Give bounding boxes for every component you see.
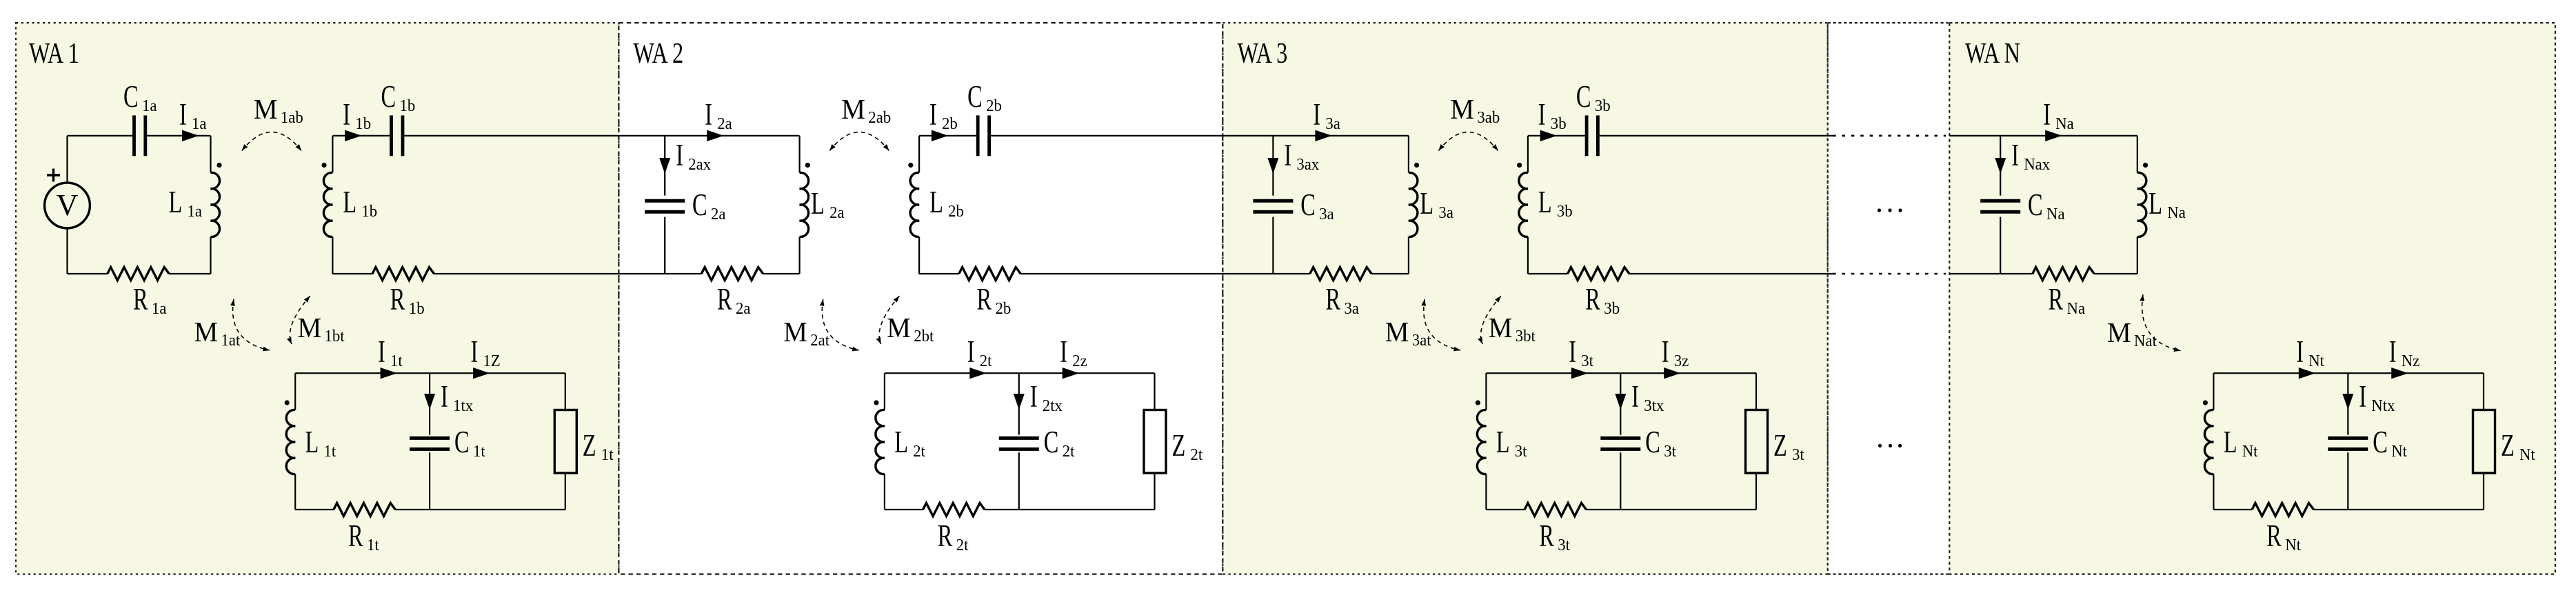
svg-text:I: I xyxy=(1284,139,1291,172)
svg-text:I: I xyxy=(676,139,683,172)
arrow I2tx xyxy=(1014,394,1025,410)
label I3ax xyxy=(1284,139,1319,174)
wire loop3b bottom xyxy=(1528,273,1568,274)
svg-text:I: I xyxy=(1313,98,1320,132)
wire t-loop 3 right xyxy=(1755,373,1757,410)
arrow INtx xyxy=(2342,394,2353,410)
svg-text:L: L xyxy=(811,187,825,221)
svg-text:I: I xyxy=(441,380,448,414)
svg-text:WA N: WA N xyxy=(1965,38,2020,70)
svg-text:R: R xyxy=(2266,519,2282,553)
svg-text:L: L xyxy=(2149,187,2162,221)
WA N block background xyxy=(1949,23,2555,574)
svg-text:I: I xyxy=(929,98,937,132)
impedance ZNt xyxy=(2473,410,2495,474)
label M2at xyxy=(783,316,829,350)
resistor R1t xyxy=(334,503,395,516)
svg-text:Ntx: Ntx xyxy=(2371,396,2395,415)
label LNt xyxy=(2224,425,2258,461)
impedance Z3t xyxy=(1746,410,1768,474)
label INt xyxy=(2296,335,2324,370)
svg-text:I: I xyxy=(2389,335,2397,369)
label CNt xyxy=(2373,425,2407,461)
svg-text:1ab: 1ab xyxy=(281,108,303,127)
dashed border box WA N xyxy=(1949,23,2555,574)
capacitor C1t xyxy=(410,436,450,440)
svg-text:1tx: 1tx xyxy=(453,396,473,415)
svg-text:2b: 2b xyxy=(986,97,1002,115)
svg-text:R: R xyxy=(348,519,363,553)
resistor R3b xyxy=(1568,268,1629,281)
wire t-loop 3 left xyxy=(1485,373,1487,410)
svg-text:3t: 3t xyxy=(1792,445,1804,464)
svg-text:1b: 1b xyxy=(400,97,416,115)
svg-text:2tx: 2tx xyxy=(1043,396,1063,415)
label RNa xyxy=(2049,283,2086,318)
dashed border box WA 2 xyxy=(618,23,1222,574)
label I3z xyxy=(1662,335,1689,370)
label I2ax xyxy=(676,139,711,174)
svg-text:R: R xyxy=(390,283,405,316)
wire top lead into loopNa xyxy=(1949,135,2137,137)
dashed border gap column bottom xyxy=(1828,573,1950,574)
svg-text:I: I xyxy=(1060,335,1067,369)
svg-text:C: C xyxy=(2373,425,2388,459)
svg-text:C: C xyxy=(1645,425,1660,459)
inductor LNa xyxy=(2137,172,2146,237)
label R1a xyxy=(133,283,167,318)
svg-text:L: L xyxy=(1538,185,1552,219)
arrow I2t xyxy=(969,368,987,379)
svg-text:M: M xyxy=(194,316,219,348)
label I1b xyxy=(343,98,371,133)
inductor L3t xyxy=(1477,410,1486,474)
wire t-loop 2 left xyxy=(884,373,885,410)
arrow I2a xyxy=(707,130,724,141)
svg-text:I: I xyxy=(705,98,712,132)
wire loop1b left xyxy=(332,136,333,173)
wire t-loop 2 right xyxy=(1154,373,1155,410)
wire t-loop N right xyxy=(2483,373,2484,410)
svg-text:2bt: 2bt xyxy=(914,327,934,345)
arrow I3a xyxy=(1315,130,1332,141)
label I3a xyxy=(1313,98,1340,133)
svg-text:3a: 3a xyxy=(1438,203,1453,222)
wire t-loop N bottom xyxy=(2213,509,2252,510)
svg-text:3t: 3t xyxy=(1558,536,1570,554)
svg-text:3a: 3a xyxy=(1345,299,1360,318)
coupling arc M3at xyxy=(1424,299,1460,350)
svg-text:R: R xyxy=(1539,519,1554,553)
label MNat xyxy=(2107,316,2157,350)
svg-text:R: R xyxy=(2049,283,2064,316)
svg-text:I: I xyxy=(378,335,385,369)
svg-text:M: M xyxy=(254,93,278,125)
svg-text:Na: Na xyxy=(2167,203,2186,222)
svg-text:3z: 3z xyxy=(1674,352,1689,370)
svg-text:R: R xyxy=(133,283,148,316)
inductor L2a xyxy=(800,172,809,237)
svg-text:Z: Z xyxy=(2501,429,2515,463)
label C2b xyxy=(967,80,1002,115)
arrow INz xyxy=(2391,368,2408,379)
svg-text:2t: 2t xyxy=(1191,445,1203,464)
resistor R3t xyxy=(1525,503,1586,516)
label R1b xyxy=(390,283,425,318)
label L1a xyxy=(169,185,203,221)
label RNt xyxy=(2266,519,2301,554)
label R3t xyxy=(1539,519,1570,554)
wire t-loop N left xyxy=(2213,373,2214,410)
label C1t xyxy=(454,425,485,461)
label I2a xyxy=(705,98,732,133)
svg-text:Na: Na xyxy=(2055,114,2074,133)
label M3bt xyxy=(1489,312,1536,345)
dashed border box WA 3 xyxy=(1222,23,1827,574)
svg-text:2a: 2a xyxy=(829,203,845,222)
svg-text:I: I xyxy=(2011,139,2019,172)
svg-text:Nt: Nt xyxy=(2242,442,2258,461)
label C3a xyxy=(1300,188,1334,223)
label R3a xyxy=(1326,283,1360,318)
label Z1t xyxy=(583,429,614,464)
phase dot L1t xyxy=(285,400,290,405)
svg-text:1a: 1a xyxy=(142,97,157,115)
svg-text:C: C xyxy=(381,80,396,114)
svg-text:Z: Z xyxy=(1172,429,1186,463)
wire t-loop 1 middle branch xyxy=(429,373,430,434)
wire t-loop 3 top xyxy=(1486,372,1756,374)
svg-text:C: C xyxy=(123,80,139,114)
svg-text:2at: 2at xyxy=(810,331,829,350)
WA 1 block background xyxy=(16,23,618,574)
coupling arc M1ab xyxy=(242,132,301,151)
capacitor CNt xyxy=(2328,436,2368,440)
svg-text:3bt: 3bt xyxy=(1516,327,1536,345)
svg-text:1a: 1a xyxy=(188,202,203,221)
svg-text:1b: 1b xyxy=(355,114,371,133)
svg-text:1b: 1b xyxy=(409,299,425,318)
svg-text:L: L xyxy=(1420,187,1433,221)
svg-text:3tx: 3tx xyxy=(1644,396,1664,415)
label R2a xyxy=(717,283,751,318)
svg-text:3b: 3b xyxy=(1604,299,1620,318)
label R3b xyxy=(1585,283,1620,318)
svg-text:2t: 2t xyxy=(1063,442,1075,461)
phase dot L2t xyxy=(874,400,878,405)
coupling arc M3bt xyxy=(1481,296,1501,344)
label C3t xyxy=(1645,425,1676,461)
svg-text:M: M xyxy=(841,93,865,125)
wire loop3a right xyxy=(1408,136,1409,173)
label I3b xyxy=(1538,98,1567,133)
svg-text:Nt: Nt xyxy=(2308,352,2324,370)
label Z2t xyxy=(1172,429,1203,464)
label L1t xyxy=(305,425,336,461)
svg-text:2t: 2t xyxy=(913,442,925,461)
svg-text:C: C xyxy=(692,188,707,222)
wire loop1a right xyxy=(210,136,211,173)
svg-text:1t: 1t xyxy=(324,442,336,461)
arrow I3b xyxy=(1540,130,1558,141)
svg-text:2ax: 2ax xyxy=(688,155,711,174)
label I2b xyxy=(929,98,958,133)
svg-text:I: I xyxy=(2043,98,2051,132)
svg-text:R: R xyxy=(977,283,992,316)
svg-text:3ax: 3ax xyxy=(1296,155,1319,174)
wire t-loop 1 bottom xyxy=(295,509,334,510)
arrow I1b xyxy=(345,130,362,141)
coupling arc M3ab xyxy=(1438,132,1498,151)
inductor L1t xyxy=(286,410,295,474)
svg-text:2z: 2z xyxy=(1072,352,1087,370)
dashed border gap column left xyxy=(1827,23,1829,574)
coupling arc MNat xyxy=(2142,294,2181,351)
resistor R2t xyxy=(923,503,985,516)
capacitor C2t xyxy=(999,436,1039,440)
phase dot L3b xyxy=(1517,163,1522,168)
svg-text:I: I xyxy=(967,335,975,369)
svg-text:Z: Z xyxy=(1773,429,1787,463)
dotted wire top between WA3 and WA N xyxy=(1833,135,1946,137)
wire t-loop 2 middle branch xyxy=(1018,373,1020,434)
phase dot L2b xyxy=(908,163,913,168)
resistor RNt xyxy=(2252,503,2313,516)
arrow I1t xyxy=(381,368,398,379)
phase dot LNa xyxy=(2143,163,2148,168)
wire loop3b top xyxy=(1528,135,1587,137)
svg-text:Nz: Nz xyxy=(2402,352,2420,370)
wire loop1a bottom xyxy=(68,273,108,274)
label I2t xyxy=(967,335,992,370)
phase dot L1b xyxy=(322,163,327,168)
label R2b xyxy=(977,283,1012,318)
label C1b xyxy=(381,80,416,115)
label L2t xyxy=(894,425,925,461)
inductor L3b xyxy=(1519,172,1528,237)
svg-text:3a: 3a xyxy=(1319,205,1334,223)
coupling arc M2ab xyxy=(829,132,889,151)
resistor R3a xyxy=(1310,268,1371,281)
svg-text:I: I xyxy=(1538,98,1546,132)
wire t-loop 2 top xyxy=(885,372,1155,374)
wire loop1a left xyxy=(66,136,68,183)
svg-text:M: M xyxy=(1450,93,1474,125)
wire loop2a right xyxy=(798,136,800,173)
svg-text:Nt: Nt xyxy=(2519,445,2535,464)
svg-text:Nt: Nt xyxy=(2391,442,2407,461)
svg-text:1a: 1a xyxy=(192,114,207,133)
phase dot LNt xyxy=(2203,400,2208,405)
wire t-loop 1 right xyxy=(565,373,566,410)
capacitor C1b xyxy=(390,115,393,156)
arrow I3tx xyxy=(1615,394,1626,410)
svg-text:3a: 3a xyxy=(1325,114,1340,133)
arrow I2z xyxy=(1063,368,1080,379)
svg-text:C: C xyxy=(2028,188,2043,222)
wire t-loop 1 left xyxy=(294,373,296,410)
svg-text:WA 1: WA 1 xyxy=(29,38,79,70)
wire loop3b left xyxy=(1527,136,1529,173)
wire loop1a top xyxy=(68,135,134,137)
dashed border gap column top xyxy=(1828,22,1950,23)
svg-text:Na: Na xyxy=(2067,299,2086,318)
arrow I1a xyxy=(182,130,199,141)
arrow INax xyxy=(1995,158,2006,174)
phase dot L1a xyxy=(217,163,221,168)
svg-text:C: C xyxy=(454,425,470,459)
svg-text:R: R xyxy=(1326,283,1341,316)
resistor R1b xyxy=(372,268,434,281)
label M3ab xyxy=(1450,93,1500,127)
svg-text:3b: 3b xyxy=(1551,114,1567,133)
svg-text:R: R xyxy=(717,283,732,316)
svg-text:L: L xyxy=(343,185,356,219)
arrow I1tx xyxy=(424,394,435,410)
phase dot L2a xyxy=(805,163,810,168)
inductor L2t xyxy=(876,410,885,474)
svg-text:2t: 2t xyxy=(956,536,969,554)
svg-text:Na: Na xyxy=(2046,205,2065,223)
wire loop3a bottom xyxy=(1273,273,1309,274)
plus sign of source xyxy=(47,174,60,176)
resistor R2b xyxy=(959,268,1020,281)
svg-text:3t: 3t xyxy=(1664,442,1676,461)
svg-text:I: I xyxy=(471,335,479,369)
ellipsis dots upper xyxy=(1878,208,1881,212)
svg-text:I: I xyxy=(2296,335,2304,369)
svg-text:I: I xyxy=(1030,380,1038,414)
label CNa xyxy=(2028,188,2065,223)
svg-text:V: V xyxy=(57,188,79,222)
label M2bt xyxy=(887,312,934,345)
label Z3t xyxy=(1773,429,1804,464)
svg-text:3at: 3at xyxy=(1412,331,1431,350)
svg-text:M: M xyxy=(887,312,911,343)
label M2ab xyxy=(841,93,891,127)
label L2a xyxy=(811,187,845,222)
label ZNt xyxy=(2501,429,2535,464)
label INax xyxy=(2011,139,2050,174)
svg-text:3ab: 3ab xyxy=(1477,108,1500,127)
resistor RNa xyxy=(2033,268,2094,281)
label M1ab xyxy=(254,93,303,127)
label I3tx xyxy=(1631,380,1664,415)
arrow I3t xyxy=(1571,368,1589,379)
svg-text:I: I xyxy=(343,98,350,132)
label I1a xyxy=(179,98,207,133)
svg-text:1at: 1at xyxy=(221,331,241,350)
label INz xyxy=(2389,335,2420,370)
wire t-loop N middle branch xyxy=(2347,373,2348,434)
svg-text:M: M xyxy=(1489,312,1513,343)
svg-text:2b: 2b xyxy=(942,114,958,133)
capacitor C2a xyxy=(645,199,685,203)
svg-text:M: M xyxy=(1385,316,1409,348)
label L3b xyxy=(1538,185,1573,221)
svg-text:I: I xyxy=(1631,380,1639,414)
svg-text:2b: 2b xyxy=(996,299,1012,318)
svg-text:I: I xyxy=(1662,335,1669,369)
arrow INa xyxy=(2045,130,2062,141)
wire loop1b top xyxy=(332,135,391,137)
label C1a xyxy=(123,80,157,115)
label L3a xyxy=(1420,187,1453,222)
coupling arc M2at xyxy=(822,299,858,350)
label INa xyxy=(2043,98,2074,133)
coupling arc M1at xyxy=(233,299,270,350)
capacitor C1a xyxy=(132,115,136,156)
label I3t xyxy=(1569,335,1593,370)
voltage source V xyxy=(45,183,90,228)
svg-text:3b: 3b xyxy=(1595,97,1611,115)
label R2t xyxy=(938,519,969,554)
label L2b xyxy=(929,185,964,221)
svg-text:1a: 1a xyxy=(152,299,167,318)
svg-text:C: C xyxy=(1576,80,1591,114)
label LNa xyxy=(2149,187,2186,222)
resistor R1a xyxy=(108,268,169,281)
svg-text:R: R xyxy=(938,519,953,553)
svg-text:L: L xyxy=(2224,425,2237,459)
svg-text:Nat: Nat xyxy=(2134,332,2157,350)
wire loopNa shunt branch xyxy=(2000,136,2001,196)
svg-text:1t: 1t xyxy=(367,536,379,554)
arrow I3ax xyxy=(1267,158,1278,174)
svg-text:3b: 3b xyxy=(1557,202,1573,221)
svg-text:WA 2: WA 2 xyxy=(633,38,683,70)
label R1t xyxy=(348,519,379,554)
wire loop2a bottom xyxy=(665,273,701,274)
wire loopNa bottom xyxy=(2000,273,2033,274)
svg-text:Nt: Nt xyxy=(2285,536,2301,554)
wire t-loop N top xyxy=(2213,372,2484,374)
svg-text:WA 3: WA 3 xyxy=(1238,38,1288,70)
capacitor C3t xyxy=(1600,436,1640,440)
svg-text:3t: 3t xyxy=(1581,352,1593,370)
wire loop2b bottom xyxy=(919,273,959,274)
svg-text:2ab: 2ab xyxy=(868,108,891,127)
label I1Z xyxy=(471,335,501,370)
wire loopNa right xyxy=(2137,136,2138,173)
ellipsis dots lower xyxy=(1878,444,1882,448)
label M1at xyxy=(194,316,241,350)
inductor LNt xyxy=(2204,410,2213,474)
label I1t xyxy=(378,335,403,370)
arrow I1Z xyxy=(473,368,490,379)
svg-text:1b: 1b xyxy=(361,202,377,221)
label L3t xyxy=(1496,425,1527,461)
svg-text:L: L xyxy=(305,425,319,459)
WA 3 block background xyxy=(1222,23,1827,574)
wire loop2b top xyxy=(919,135,978,137)
svg-text:C: C xyxy=(1300,188,1316,222)
label C2t xyxy=(1044,425,1075,461)
capacitor CNa xyxy=(1980,199,2020,203)
inductor L1b xyxy=(323,172,332,237)
arrow INt xyxy=(2299,368,2316,379)
svg-text:L: L xyxy=(894,425,908,459)
svg-text:C: C xyxy=(1044,425,1059,459)
impedance Z1t xyxy=(554,410,576,474)
svg-text:2a: 2a xyxy=(736,299,751,318)
phase dot L3a xyxy=(1414,163,1419,168)
svg-text:2b: 2b xyxy=(948,202,964,221)
label C2a xyxy=(692,188,726,223)
label L1b xyxy=(343,185,377,221)
svg-text:1t: 1t xyxy=(473,442,485,461)
svg-text:L: L xyxy=(169,185,183,219)
